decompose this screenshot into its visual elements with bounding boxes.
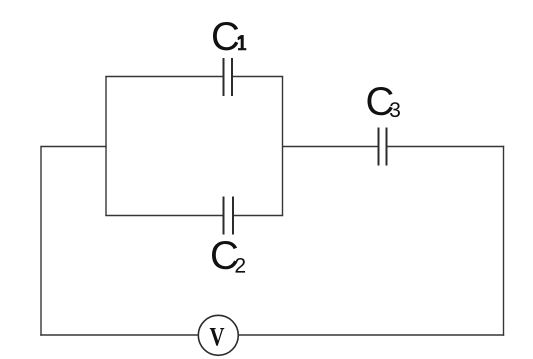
- label C1: [213, 22, 238, 50]
- wire: parallel-box bottom side, right of C2: [233, 215, 283, 217]
- wire: left outer vertical: [40, 146, 42, 336]
- label C3: [368, 87, 393, 115]
- label C1 subscript 1: [238, 35, 247, 50]
- capacitor C3 left plate: [378, 128, 380, 166]
- wire: parallel-box bottom side, left of C2: [105, 215, 223, 217]
- capacitor C3 right plate: [386, 128, 388, 166]
- wire: node line, left wire to box: [41, 146, 107, 148]
- wire: bottom, right of voltmeter: [238, 334, 504, 336]
- wire: parallel-box top side, left of C1: [105, 76, 223, 78]
- wire: node line, box to C3: [283, 146, 379, 148]
- voltmeter V circle: [198, 315, 238, 355]
- wire: bottom, left of voltmeter: [40, 334, 198, 336]
- label C2: [212, 241, 237, 269]
- voltmeter V letter: [210, 328, 224, 346]
- capacitor C1 right plate: [231, 58, 233, 96]
- label C3 subscript 3: [390, 102, 400, 117]
- capacitor C2 left plate: [223, 197, 225, 235]
- capacitor C1 left plate: [223, 58, 225, 96]
- label C2 subscript 2: [236, 258, 246, 273]
- wire: C3 to right side: [387, 146, 505, 148]
- wire: right outer vertical: [503, 146, 505, 336]
- wire: parallel-box top side, right of C1: [232, 76, 283, 78]
- capacitor C2 right plate: [232, 197, 234, 235]
- wire: parallel-box left side: [105, 77, 107, 216]
- wire: parallel-box right side: [282, 77, 284, 216]
